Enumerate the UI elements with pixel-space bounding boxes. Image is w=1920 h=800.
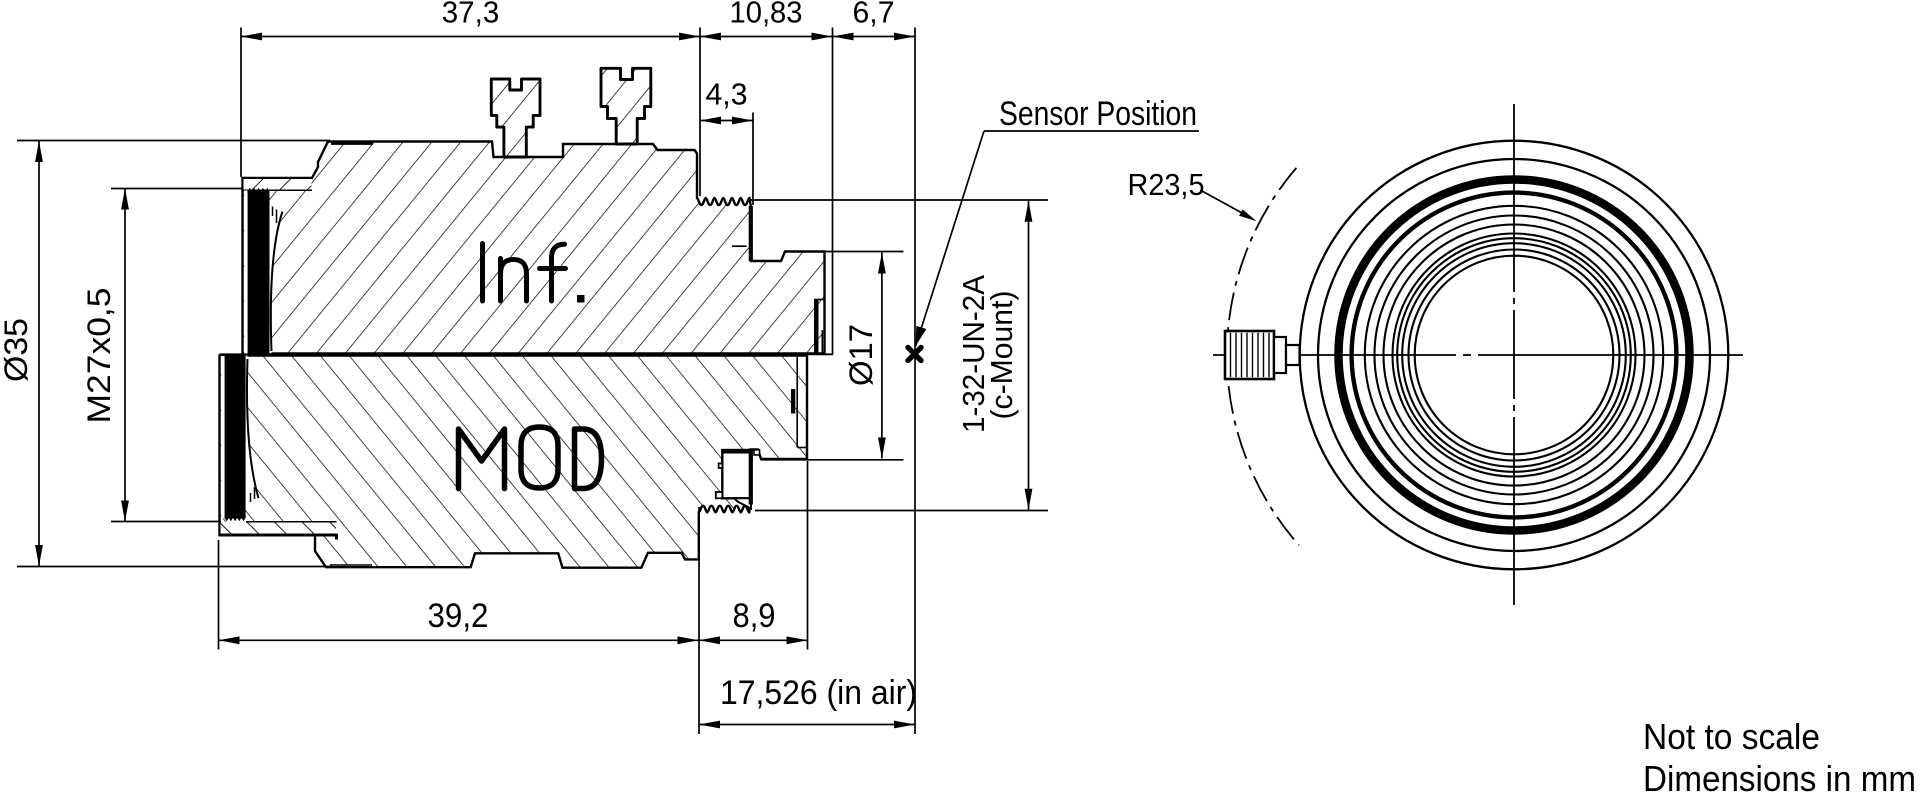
svg-text:4,3: 4,3	[706, 77, 748, 112]
svg-text:Dimensions in mm: Dimensions in mm	[1643, 758, 1916, 799]
svg-text:M27x0,5: M27x0,5	[81, 288, 117, 424]
svg-text:37,3: 37,3	[442, 0, 500, 30]
svg-text:39,2: 39,2	[428, 597, 489, 635]
svg-text:Ø35: Ø35	[0, 318, 34, 382]
svg-text:R23,5: R23,5	[1128, 167, 1205, 202]
svg-text:Sensor Position: Sensor Position	[999, 95, 1197, 133]
svg-text:Ø17: Ø17	[843, 324, 879, 386]
svg-text:(c-Mount): (c-Mount)	[985, 291, 1019, 420]
svg-text:8,9: 8,9	[733, 597, 776, 635]
svg-text:Not to scale: Not to scale	[1643, 716, 1820, 757]
svg-text:17,526 (in air): 17,526 (in air)	[720, 674, 917, 712]
svg-text:10,83: 10,83	[730, 0, 803, 30]
svg-text:6,7: 6,7	[853, 0, 895, 30]
